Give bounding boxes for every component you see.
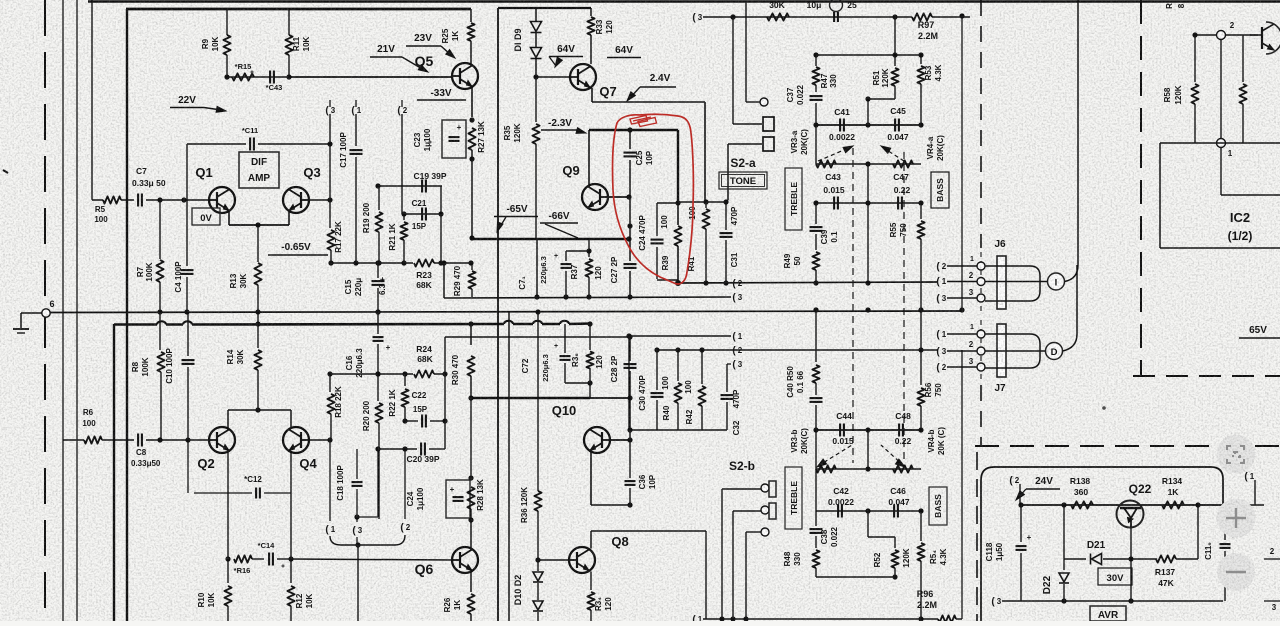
resistor R21 xyxy=(403,214,405,220)
resistor R39 xyxy=(677,203,679,225)
capacitor C12 xyxy=(187,440,189,493)
node red loop bottom xyxy=(675,280,681,286)
resistor R52 xyxy=(894,537,896,548)
capacitor C8 xyxy=(102,439,134,441)
switch S2-b contact 3 xyxy=(746,531,761,533)
wire x962 lower xyxy=(961,350,963,619)
resistor R138 xyxy=(1071,501,1093,508)
wire J7 to D xyxy=(985,350,1046,352)
wire x444 drop xyxy=(443,263,445,298)
resistor R16 xyxy=(234,555,252,562)
capacitor C41 xyxy=(839,119,841,132)
wire C21 row xyxy=(404,213,442,215)
wire x1198 up xyxy=(1197,505,1199,559)
switch S2-a contact 1 xyxy=(733,123,762,125)
wire x441 column xyxy=(440,186,442,263)
resistor R28 xyxy=(467,487,474,509)
node tone bus xyxy=(813,307,818,312)
wire input line y200 xyxy=(91,199,93,200)
wire stubs right edge xyxy=(1264,558,1280,560)
capacitor C48 xyxy=(898,424,900,437)
resistor R18 xyxy=(329,374,331,392)
wire Q1 Q3 emitter join xyxy=(228,211,230,226)
wiper VR4-b dashed xyxy=(881,445,904,466)
resistor R9 xyxy=(226,9,228,35)
label 30V box xyxy=(1098,568,1132,585)
resistor R50 xyxy=(812,365,819,383)
resistor R7 xyxy=(156,260,163,282)
diode D21 xyxy=(1092,554,1102,565)
capacitor C14 xyxy=(252,558,264,560)
resistor R20 xyxy=(377,374,379,401)
wire R7 column xyxy=(159,200,161,259)
IC2 inner step xyxy=(1220,147,1222,195)
terminal circle xyxy=(746,101,760,103)
capacitor C43 xyxy=(269,71,271,84)
border dashed vertical x1141 xyxy=(1140,0,1142,376)
wire C72 R36 column xyxy=(537,312,539,491)
resistor R40 xyxy=(677,350,679,381)
border dashed horizontal y376 xyxy=(1133,375,1280,377)
border dashed vertical x977 xyxy=(976,452,978,621)
capacitor C118 xyxy=(1020,505,1022,542)
wire tone-b left column x816 xyxy=(815,310,817,362)
capacitor C15 xyxy=(377,263,379,278)
resistor R54 xyxy=(920,511,922,541)
wire switch feed x733 xyxy=(732,17,734,124)
wire C71 column xyxy=(536,240,538,297)
annotation red loop xyxy=(612,114,693,284)
resistor R35 xyxy=(535,77,537,122)
wire thick mid bus y324 xyxy=(114,323,157,326)
resistor R14 xyxy=(257,312,259,348)
wire tone-b row y430 xyxy=(816,429,921,431)
gang dashed vertical VR3 xyxy=(852,148,854,463)
wire mid column x868 upper xyxy=(867,99,869,125)
wire x445 column xyxy=(444,337,446,449)
resistor R29 xyxy=(471,263,473,270)
resistor R47 xyxy=(812,67,819,85)
scan noise overlay xyxy=(0,0,1,1)
wire tone row y203 xyxy=(816,202,921,204)
capacitor C24 xyxy=(656,203,658,236)
capacitor C45 xyxy=(894,119,896,132)
wire bus y283 to J6 xyxy=(678,282,938,283)
diode D2 xyxy=(537,583,539,600)
wire Q7 block top bus xyxy=(498,7,591,9)
wire bus y263 xyxy=(331,262,413,264)
transistor Q3 xyxy=(283,187,309,213)
wire mid column x868 b xyxy=(867,430,869,469)
wire thick rail y130 xyxy=(589,129,678,132)
wiper VR4-a dashed xyxy=(882,147,904,161)
wire x509 long vertical xyxy=(508,311,510,621)
wire x962 column xyxy=(961,15,963,310)
resistor R30 xyxy=(467,356,474,376)
resistor R17 xyxy=(327,230,334,250)
wire IC2 input row y35 xyxy=(1195,34,1258,36)
resistor R11 xyxy=(288,9,290,35)
wire J6 to I xyxy=(985,281,1048,283)
wire x330 to arc xyxy=(329,440,331,521)
button zoom out xyxy=(1217,553,1255,591)
wire AVR rail right ext xyxy=(1223,504,1264,506)
resistor R27 xyxy=(468,128,475,150)
wire Q9 base right xyxy=(608,196,629,198)
wire x630 mid xyxy=(629,398,631,440)
resistor R58 xyxy=(1194,35,1196,82)
transistor Q7 xyxy=(570,64,596,90)
wiper VR3-a dashed xyxy=(818,147,851,161)
capacitor C18 xyxy=(356,449,358,479)
capacitor C119 xyxy=(1224,505,1226,540)
capacitor C21 xyxy=(421,208,423,221)
resistor R56 xyxy=(920,310,922,385)
wire Q9 collector xyxy=(588,130,590,187)
wire Q22 emitter xyxy=(1130,526,1132,559)
button pan xyxy=(1217,435,1256,474)
resistor R26 xyxy=(470,572,472,593)
transistor Q22 xyxy=(1117,501,1144,528)
wire stub to ground xyxy=(21,312,42,314)
resistor R33 xyxy=(590,8,592,16)
transistor IC2 input xyxy=(1261,27,1263,49)
node marker 3 top xyxy=(329,100,331,107)
resistor R48 xyxy=(812,550,819,568)
wire x629 column xyxy=(628,336,630,430)
capacitor C32 xyxy=(726,364,728,392)
resistor R36 xyxy=(534,491,541,511)
wire Q8 collector xyxy=(590,531,592,549)
wire Q3 base to x330 xyxy=(309,199,330,201)
capacitor C74 220u xyxy=(564,324,566,353)
IC2 box bottom xyxy=(1160,247,1280,249)
capacitor C4 xyxy=(181,269,194,271)
speck top left xyxy=(3,170,8,173)
resistor R15 xyxy=(232,73,254,80)
wire top row y202 xyxy=(678,201,726,203)
wire tone-b row y511 xyxy=(816,510,921,512)
transistor Q8 xyxy=(569,547,595,573)
wire bottom row y577 xyxy=(816,576,895,578)
wire x1078 vertical xyxy=(1077,0,1079,265)
diode D10 xyxy=(537,560,539,571)
wire collect to y545 xyxy=(330,535,405,545)
node marker 2 top xyxy=(401,100,403,107)
connector J7 loop xyxy=(985,334,1040,368)
button zoom in xyxy=(1217,499,1256,538)
wire IC2 row y143 xyxy=(1160,142,1280,144)
resistor R22 xyxy=(404,374,406,386)
pin 1 circle xyxy=(1217,139,1226,148)
capacitor C42 xyxy=(837,505,839,518)
wire left block border vertical xyxy=(126,9,128,621)
resistor R24 xyxy=(414,370,434,377)
label DIF AMP box xyxy=(239,152,279,188)
capacitor C25 xyxy=(629,130,631,149)
resistor R51 xyxy=(894,17,896,55)
node marker 1 top xyxy=(355,100,357,107)
potentiometer VR3-b xyxy=(815,430,817,469)
capacitor C39 xyxy=(815,203,817,224)
wire row y350 to J7 xyxy=(657,349,938,351)
capacitor C43 xyxy=(833,197,835,210)
wire x678 thick column xyxy=(677,130,679,203)
resistor R5 xyxy=(103,196,121,203)
border top edge line xyxy=(88,0,1280,3)
wire x330 column xyxy=(329,114,331,228)
AVR block outline xyxy=(981,467,1223,621)
wire Q4 emitter down xyxy=(290,451,292,559)
ground symbol xyxy=(13,328,29,330)
resistor R19 xyxy=(378,186,380,210)
resistor R23 xyxy=(414,259,434,266)
capacitor C22 xyxy=(405,420,418,422)
resistor R13 xyxy=(257,225,259,262)
transistor Q6 xyxy=(452,547,478,573)
transistor Q1 xyxy=(209,187,235,213)
potentiometer VR4-b xyxy=(893,465,913,472)
resistor R10 xyxy=(227,559,229,583)
border dashed vertical x981 xyxy=(980,0,982,248)
capacitor C28 xyxy=(629,337,631,361)
potentiometer VR3-a xyxy=(815,125,817,164)
wire tone top row y55 xyxy=(816,54,921,56)
wire AVR rail y505 xyxy=(1020,504,1223,506)
capacitor C19 xyxy=(421,180,423,193)
wire x471 between buses xyxy=(470,324,472,345)
wire node y251 tap xyxy=(588,239,590,251)
resistor 30K xyxy=(767,13,789,20)
connector J6 loop xyxy=(985,266,1040,301)
connector J6 dashed line xyxy=(980,252,982,312)
wire x705 down to R41 xyxy=(704,102,706,202)
resistor R59 xyxy=(1242,35,1244,82)
switch S2-a contact 2 xyxy=(728,143,762,145)
wire thick bus y239 xyxy=(471,238,629,241)
wiper VR3-b dashed xyxy=(818,445,852,466)
label AVR box xyxy=(1090,606,1126,621)
transistor Q4 xyxy=(283,427,309,453)
terminal D circle xyxy=(1046,343,1063,360)
wire S2-b feeds down xyxy=(721,489,723,619)
transistor Q9 xyxy=(582,184,608,210)
wire I to vertical xyxy=(1065,265,1079,282)
wire main ground bus y312 xyxy=(46,311,962,313)
capacitor C27 xyxy=(629,239,631,261)
label TREBLE box b xyxy=(785,467,802,529)
switch S2-b contact 1 xyxy=(722,488,761,490)
resistor R37 xyxy=(588,251,590,257)
capacitor C73 220u xyxy=(565,251,567,261)
resistor R41 xyxy=(705,202,707,208)
capacitor C10 xyxy=(187,312,189,356)
transistor Q5 xyxy=(452,63,478,89)
wire Q4 base to x330 xyxy=(309,439,330,441)
diode D9 xyxy=(535,8,537,21)
IC2 box left xyxy=(1159,143,1161,248)
wire R20 column lower xyxy=(378,449,380,519)
wire Q10 collector down xyxy=(590,451,592,506)
diode D22 zener xyxy=(1059,573,1069,582)
wire main block top bus xyxy=(126,8,471,11)
capacitor C44 xyxy=(839,424,841,437)
wire box row y537 xyxy=(867,511,869,537)
capacitor C20 xyxy=(378,448,417,450)
capacitor C31 xyxy=(725,202,727,230)
wire middle block left vertical xyxy=(497,8,499,621)
border dashed horizontal y446 xyxy=(975,445,1280,447)
transistor Q2 xyxy=(209,427,235,453)
capacitor 10u 25 xyxy=(830,0,843,12)
wire C19 row xyxy=(378,185,442,187)
resistor R97 xyxy=(912,13,932,20)
wire Q5 emitter column xyxy=(471,87,473,117)
wire mid column x868 lower xyxy=(867,164,869,283)
capacitor C23 box xyxy=(442,120,466,158)
wire bus y297 xyxy=(444,297,731,298)
label BASS box xyxy=(931,172,949,208)
wire x746 vertical xyxy=(745,2,747,102)
wire thick vertical x114 xyxy=(113,324,115,621)
wire row y505 xyxy=(591,504,630,506)
wire Q7 emitter rail xyxy=(591,88,593,102)
label BASS box b xyxy=(929,487,947,525)
wire R20 col to C18 xyxy=(377,449,379,517)
diode D1 xyxy=(535,33,537,47)
resistor R25 xyxy=(470,9,472,22)
capacitor C17 xyxy=(350,149,363,151)
capacitor C24b box xyxy=(446,480,470,518)
potentiometer VR4-a xyxy=(893,160,913,167)
resistor R137 xyxy=(1156,555,1176,562)
resistor R6 xyxy=(63,439,84,441)
wire AVR row y559 xyxy=(1064,558,1086,560)
wire C4 column xyxy=(186,144,188,266)
wire Q2 Q4 collector split xyxy=(228,409,291,411)
wire vertical rail x77 xyxy=(76,0,78,621)
gang dashed vertical VR4 xyxy=(903,152,905,463)
wire base bus y560 to Q6 xyxy=(291,559,452,560)
wire D to vertical xyxy=(1063,334,1078,351)
wire Q10 base right xyxy=(610,439,629,441)
terminal I circle xyxy=(1048,273,1065,290)
wire bus y374 xyxy=(330,373,413,375)
wire x706 to bottom bus xyxy=(705,531,707,619)
resistor R49 xyxy=(815,240,817,250)
wire x471 down to R28 xyxy=(470,398,472,478)
wire x630 column mid xyxy=(629,197,631,239)
wire Q5 base xyxy=(289,76,452,78)
wire input vertical x92 xyxy=(91,0,93,199)
wire left dashed vertical rail xyxy=(44,0,46,621)
resistor R96 xyxy=(938,615,956,622)
wire R15 row y77 xyxy=(227,76,453,78)
capacitor C38 xyxy=(815,469,817,526)
wire Q7 base xyxy=(536,76,570,78)
wire Q2 emitter down xyxy=(227,451,229,559)
resistor R53 xyxy=(920,55,922,64)
label TREBLE box xyxy=(785,168,802,230)
wire Q8 base xyxy=(538,559,569,561)
resistor R134 xyxy=(1162,501,1184,508)
capacitor C46 xyxy=(893,505,895,518)
resistor R8 xyxy=(159,312,161,350)
wire x1064 column xyxy=(1063,505,1065,570)
wire row y337 xyxy=(445,336,630,338)
wire tone row y125 xyxy=(816,124,921,126)
wire x1077 vertical lower xyxy=(1076,265,1078,334)
resistor R38 xyxy=(589,324,591,350)
transistor Q10 xyxy=(584,427,610,453)
capacitor C37 xyxy=(815,85,817,92)
resistor R42 xyxy=(701,350,703,384)
resistor R34 xyxy=(590,572,592,591)
capacitor C11 xyxy=(187,143,246,145)
wire Q6 collector xyxy=(470,520,472,548)
resistor R12 xyxy=(290,559,292,583)
capacitor C30 xyxy=(656,350,658,390)
wire thick bus y398 xyxy=(471,397,590,400)
label TONE box xyxy=(719,172,767,189)
label 0V box xyxy=(192,208,220,225)
node 6 terminal circle xyxy=(42,309,50,317)
connector J6 bar xyxy=(997,256,1006,309)
capacitor C7 xyxy=(121,199,134,201)
capacitor C40 xyxy=(815,383,817,395)
connector J7 bar xyxy=(997,324,1006,377)
capacitor C36 xyxy=(629,440,631,478)
connector J7 dashed line xyxy=(980,320,982,380)
wire x358 down xyxy=(357,545,359,621)
wire row y430 xyxy=(629,429,727,431)
wire vertical rail x63 xyxy=(62,0,64,621)
wire x402 column xyxy=(401,114,403,214)
annotation red scribble xyxy=(630,116,648,125)
switch S2-b contact 2 xyxy=(733,510,761,512)
capacitor C16 xyxy=(377,312,379,334)
node Q5 emitter bottom xyxy=(469,235,474,240)
wire row y336 xyxy=(629,335,731,337)
resistor R55 xyxy=(920,203,922,219)
wire x1221 column xyxy=(1220,39,1222,139)
capacitor C47 xyxy=(897,197,899,210)
wire tone left column x816 xyxy=(815,55,817,66)
wire x356 column xyxy=(355,114,357,146)
